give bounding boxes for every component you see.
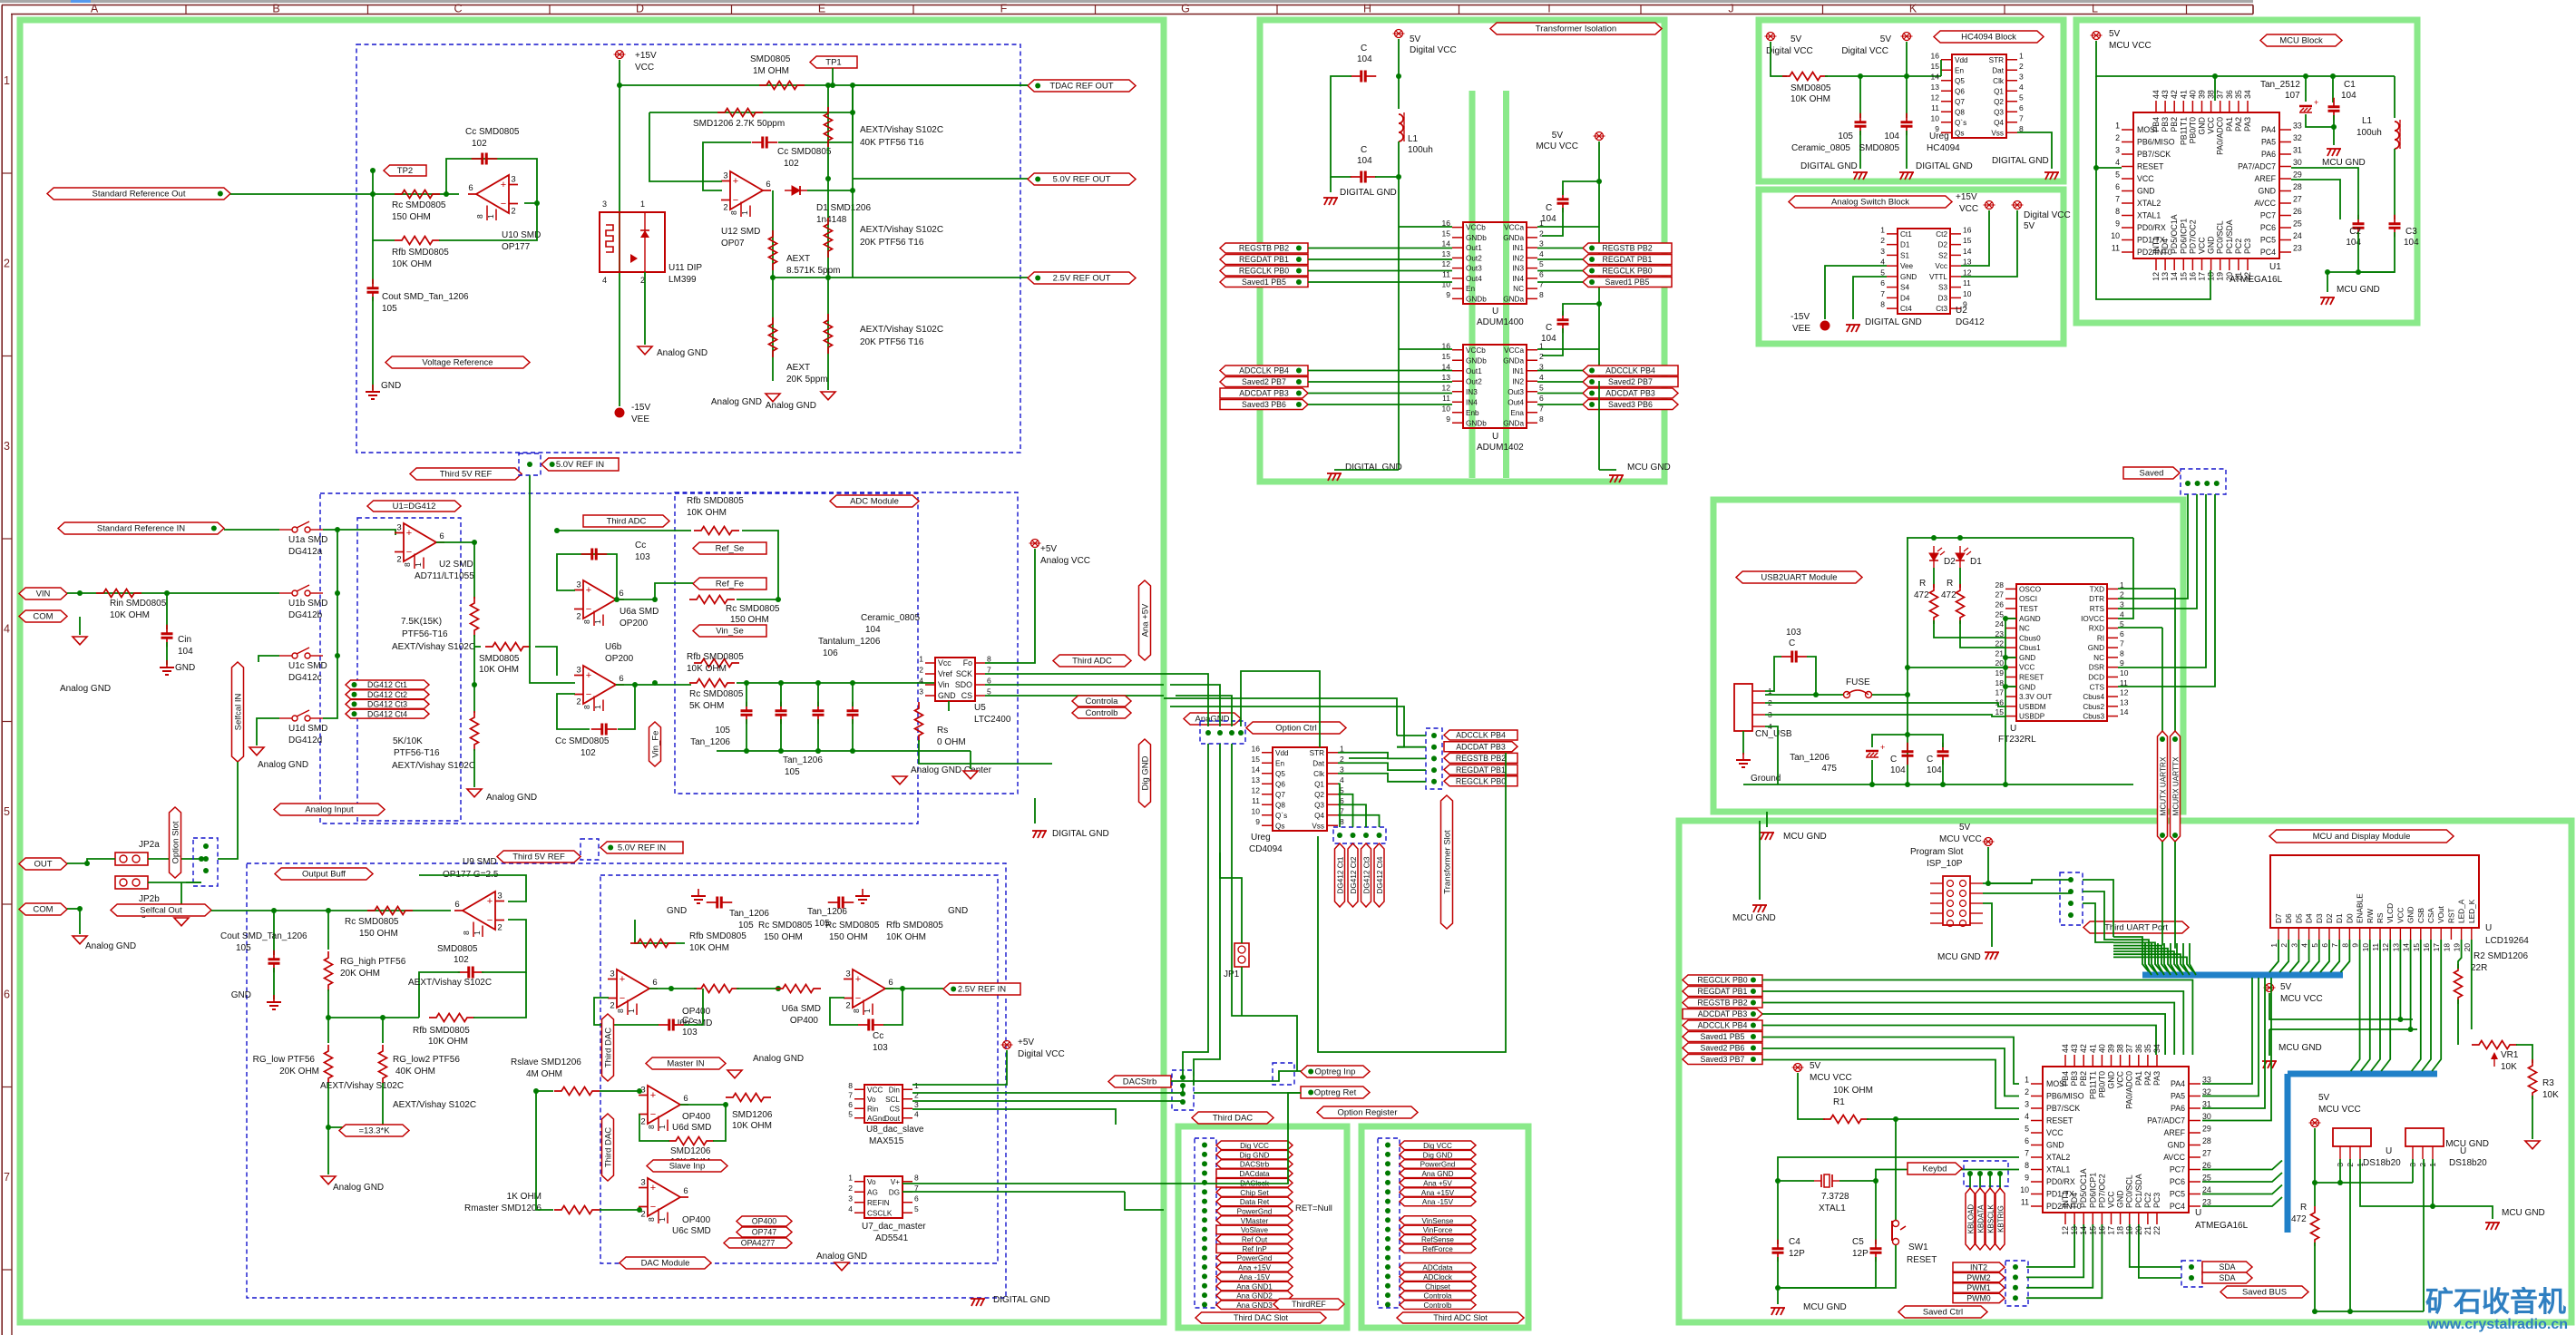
svg-text:5: 5 [914, 1204, 919, 1213]
svg-text:+15V: +15V [1956, 192, 1977, 202]
svg-text:PA4: PA4 [2261, 125, 2276, 134]
svg-text:PA6: PA6 [2171, 1104, 2185, 1113]
svg-text:Cbus4: Cbus4 [2083, 693, 2104, 701]
svg-text:DIGITAL GND: DIGITAL GND [993, 1295, 1050, 1305]
svg-text:Ref InP: Ref InP [1242, 1245, 1267, 1253]
svg-text:6: 6 [2120, 629, 2124, 638]
svg-text:5V: 5V [2280, 982, 2292, 992]
svg-text:25: 25 [1995, 609, 2005, 619]
svg-text:REGDAT PB1: REGDAT PB1 [1698, 987, 1748, 996]
svg-text:Clk: Clk [1993, 77, 2005, 85]
svg-text:Saved Ctrl: Saved Ctrl [1923, 1308, 1963, 1318]
svg-text:D: D [636, 3, 644, 15]
svg-text:Clk: Clk [1313, 770, 1325, 778]
svg-text:Selfcal IN: Selfcal IN [233, 694, 243, 731]
svg-text:Option Ctrl: Option Ctrl [1275, 724, 1316, 734]
svg-text:RESET: RESET [2046, 1116, 2073, 1125]
svg-text:20K OHM: 20K OHM [279, 1067, 319, 1077]
svg-text:Out1: Out1 [1466, 367, 1482, 375]
svg-text:17: 17 [2432, 943, 2441, 952]
svg-text:VCCa: VCCa [1504, 346, 1524, 355]
svg-text:MCU VCC: MCU VCC [1939, 834, 1982, 844]
svg-text:PTF56-T16: PTF56-T16 [394, 748, 440, 758]
svg-text:Data Ret: Data Ret [1240, 1198, 1270, 1206]
svg-text:Third 5V REF: Third 5V REF [440, 470, 493, 480]
svg-text:=13.3*K: =13.3*K [358, 1126, 390, 1136]
svg-text:+: + [650, 1090, 656, 1101]
svg-text:Q3: Q3 [1994, 108, 2004, 116]
svg-text:Q5: Q5 [1955, 77, 1965, 85]
svg-text:−: − [586, 604, 591, 615]
svg-text:13: 13 [1442, 373, 1451, 382]
svg-text:ISP_10P: ISP_10P [1927, 859, 1963, 869]
svg-text:GND: GND [2046, 1141, 2064, 1150]
svg-text:Dat: Dat [1992, 66, 2004, 74]
svg-text:13: 13 [1442, 249, 1451, 258]
svg-text:Ref_Fe: Ref_Fe [716, 580, 744, 590]
svg-text:JP2b: JP2b [139, 894, 160, 904]
svg-text:Rc SMD0805: Rc SMD0805 [726, 604, 780, 614]
svg-text:R2 SMD1206: R2 SMD1206 [2474, 951, 2528, 961]
svg-text:SW1: SW1 [1908, 1242, 1928, 1252]
svg-text:+5V: +5V [1040, 544, 1057, 554]
svg-text:33: 33 [2202, 1076, 2211, 1085]
svg-text:PC2: PC2 [2234, 239, 2243, 254]
svg-text:5: 5 [2310, 943, 2319, 948]
svg-text:TEST: TEST [2019, 605, 2038, 613]
svg-text:ADCCLK PB4: ADCCLK PB4 [1456, 731, 1506, 740]
svg-text:SCK: SCK [956, 669, 972, 678]
svg-text:12: 12 [1931, 93, 1940, 102]
svg-text:3: 3 [2019, 72, 2024, 81]
svg-text:Master IN: Master IN [667, 1059, 704, 1069]
svg-text:U: U [2485, 923, 2492, 933]
svg-text:Third DAC: Third DAC [603, 1127, 613, 1167]
svg-text:12P: 12P [1789, 1249, 1805, 1259]
svg-text:Rfb SMD0805: Rfb SMD0805 [689, 931, 746, 941]
svg-text:AD711/LT1055: AD711/LT1055 [415, 571, 474, 581]
svg-text:6: 6 [683, 1094, 688, 1104]
svg-text:Vref: Vref [938, 669, 952, 678]
svg-text:28: 28 [2293, 182, 2302, 191]
svg-text:Standard Reference Out: Standard Reference Out [93, 190, 186, 200]
svg-text:5: 5 [4, 805, 10, 818]
svg-text:DG412 Ct2: DG412 Ct2 [367, 690, 407, 699]
svg-text:5: 5 [2115, 171, 2120, 180]
svg-text:10K OHM: 10K OHM [886, 932, 926, 942]
svg-text:25: 25 [2293, 219, 2302, 229]
svg-text:39: 39 [2107, 1044, 2116, 1053]
svg-text:DSR: DSR [2089, 664, 2104, 672]
svg-text:ADCDAT PB3: ADCDAT PB3 [1239, 389, 1289, 398]
svg-text:Vcc: Vcc [938, 658, 951, 667]
svg-text:10K OHM: 10K OHM [1791, 94, 1830, 104]
svg-text:XTAL1: XTAL1 [2137, 211, 2161, 220]
svg-text:GND: GND [231, 990, 251, 1000]
svg-text:105: 105 [738, 921, 754, 931]
svg-text:DG412: DG412 [1956, 317, 1985, 327]
svg-text:XTAL2: XTAL2 [2046, 1153, 2070, 1162]
svg-text:DIGITAL GND: DIGITAL GND [1865, 317, 1922, 327]
svg-text:Ana GND1: Ana GND1 [1236, 1282, 1273, 1291]
svg-text:DACStrb: DACStrb [1123, 1077, 1156, 1087]
svg-text:GND: GND [2406, 907, 2415, 923]
svg-text:OP400: OP400 [682, 1215, 711, 1225]
svg-text:OSCO: OSCO [2019, 585, 2041, 593]
svg-text:Q1: Q1 [1994, 87, 2004, 95]
svg-text:FUSE: FUSE [1846, 677, 1870, 687]
svg-text:DG412 Ct4: DG412 Ct4 [367, 709, 407, 718]
svg-text:8: 8 [914, 1173, 919, 1182]
svg-text:3: 3 [723, 171, 727, 181]
svg-text:DIGITAL GND: DIGITAL GND [1800, 161, 1858, 171]
svg-text:+: + [487, 896, 493, 907]
svg-text:Saved: Saved [2140, 469, 2164, 479]
svg-text:11: 11 [2112, 244, 2120, 253]
svg-text:U1a SMD: U1a SMD [288, 535, 327, 545]
svg-text:En: En [1466, 285, 1475, 293]
svg-text:Saved2 PB7: Saved2 PB7 [1242, 377, 1286, 386]
svg-text:1: 1 [848, 1173, 853, 1182]
svg-text:Rc SMD0805: Rc SMD0805 [345, 917, 399, 927]
svg-text:Saved2 PB6: Saved2 PB6 [1701, 1044, 1745, 1053]
svg-text:Digital VCC: Digital VCC [1410, 45, 1457, 55]
svg-text:U2 SMD: U2 SMD [439, 560, 473, 570]
svg-text:13: 13 [2070, 1226, 2079, 1235]
svg-text:9: 9 [2120, 658, 2124, 667]
svg-text:U10 SMD: U10 SMD [502, 230, 541, 240]
svg-text:OP200: OP200 [620, 619, 649, 629]
svg-text:6: 6 [683, 1186, 688, 1196]
svg-text:Cbus0: Cbus0 [2019, 634, 2041, 642]
svg-text:DIGITAL GND: DIGITAL GND [1345, 463, 1402, 473]
svg-text:ThirdREF: ThirdREF [1292, 1300, 1326, 1309]
svg-text:GND: GND [2019, 683, 2035, 691]
svg-text:Rc SMD0805: Rc SMD0805 [825, 921, 880, 931]
svg-text:C1: C1 [2344, 80, 2356, 90]
svg-text:8: 8 [582, 619, 591, 624]
svg-text:ATMEGA16L: ATMEGA16L [2230, 275, 2283, 285]
svg-text:+: + [586, 585, 591, 596]
svg-text:12: 12 [1442, 383, 1451, 392]
svg-text:GNDb: GNDb [1466, 356, 1487, 365]
svg-text:15: 15 [1252, 755, 1261, 764]
svg-text:S4: S4 [1900, 284, 1909, 292]
svg-text:E: E [818, 3, 825, 15]
svg-text:10: 10 [2111, 231, 2120, 240]
svg-text:8: 8 [1880, 300, 1885, 309]
svg-text:15: 15 [2088, 1226, 2097, 1235]
svg-text:Vin: Vin [938, 680, 950, 689]
svg-text:Out4: Out4 [1508, 398, 1524, 406]
svg-text:RXD: RXD [2089, 625, 2104, 633]
svg-text:107: 107 [2285, 91, 2300, 101]
svg-text:3: 3 [845, 970, 850, 979]
svg-text:PC0/SCL: PC0/SCL [2125, 1174, 2134, 1208]
svg-text:14: 14 [1931, 72, 1940, 81]
svg-text:27: 27 [1995, 590, 2005, 599]
svg-text:9: 9 [2351, 943, 2360, 948]
svg-text:Optreg Inp: Optreg Inp [1315, 1067, 1356, 1077]
svg-text:ENABLE: ENABLE [2356, 893, 2365, 923]
svg-text:CSA: CSA [2426, 907, 2435, 923]
svg-text:ADCCLK PB4: ADCCLK PB4 [1239, 366, 1289, 375]
svg-text:−: − [586, 689, 591, 700]
svg-text:L1: L1 [1408, 134, 1419, 144]
svg-text:PA7/ADC7: PA7/ADC7 [2147, 1116, 2185, 1125]
svg-text:C2: C2 [2349, 227, 2361, 237]
svg-text:PD5/OC1A: PD5/OC1A [2079, 1168, 2088, 1208]
svg-text:H: H [1363, 3, 1371, 15]
svg-text:Third ADC: Third ADC [607, 517, 647, 527]
svg-text:7: 7 [4, 1171, 10, 1184]
svg-text:U: U [2460, 1146, 2466, 1156]
svg-text:Tantalum_1206: Tantalum_1206 [818, 637, 881, 647]
svg-text:5: 5 [1539, 259, 1544, 268]
svg-text:PC5: PC5 [2260, 236, 2276, 245]
svg-text:100uh: 100uh [1408, 145, 1433, 155]
svg-text:37: 37 [2216, 90, 2225, 99]
svg-text:F: F [1000, 3, 1008, 15]
svg-text:GND: GND [2198, 117, 2207, 135]
svg-text:3: 3 [1880, 247, 1885, 256]
svg-text:J: J [1728, 3, 1733, 15]
svg-text:105: 105 [1838, 132, 1853, 141]
svg-text:VCC: VCC [2207, 116, 2216, 133]
svg-text:3: 3 [4, 440, 10, 453]
svg-text:AGND: AGND [2019, 615, 2041, 623]
svg-text:475: 475 [1821, 764, 1837, 774]
svg-text:IN4: IN4 [1466, 398, 1478, 406]
svg-text:Vss: Vss [1991, 129, 2004, 137]
svg-text:Tan_1206: Tan_1206 [1790, 753, 1830, 763]
svg-text:1: 1 [486, 214, 495, 219]
svg-text:Rfb SMD0805: Rfb SMD0805 [392, 248, 449, 258]
svg-text:10K OHM: 10K OHM [689, 943, 729, 953]
svg-text:−: − [406, 547, 412, 558]
svg-text:Saved1 PB5: Saved1 PB5 [1242, 278, 1286, 287]
svg-text:150 OHM: 150 OHM [730, 615, 769, 625]
svg-text:ATMEGA16L: ATMEGA16L [2195, 1221, 2249, 1231]
svg-text:MCU GND: MCU GND [1937, 952, 1981, 962]
svg-text:7: 7 [987, 666, 991, 675]
svg-text:PA2: PA2 [2143, 1071, 2152, 1086]
svg-text:Dat: Dat [1312, 759, 1324, 767]
svg-text:Saved BUS: Saved BUS [2242, 1288, 2287, 1298]
svg-text:38: 38 [2116, 1044, 2125, 1053]
svg-text:30: 30 [2202, 1112, 2211, 1121]
svg-text:+: + [406, 528, 412, 539]
svg-text:REGCLK PB0: REGCLK PB0 [1697, 976, 1747, 985]
svg-text:15: 15 [2179, 272, 2188, 281]
svg-text:Ct4: Ct4 [1900, 305, 1912, 313]
svg-text:GND: GND [938, 691, 956, 700]
svg-text:U: U [1492, 307, 1498, 317]
svg-text:AEXT/Vishay S102C: AEXT/Vishay S102C [320, 1081, 404, 1091]
svg-text:R: R [1947, 579, 1953, 589]
svg-text:RS: RS [2376, 912, 2385, 923]
svg-text:IN2: IN2 [1512, 254, 1524, 262]
svg-text:OP177: OP177 [502, 242, 531, 252]
svg-text:Analog GND: Analog GND [753, 1054, 804, 1064]
svg-text:9: 9 [1446, 414, 1450, 424]
svg-text:9: 9 [2025, 1174, 2029, 1183]
svg-text:Ena: Ena [1510, 409, 1524, 417]
svg-text:U1=DG412: U1=DG412 [393, 502, 436, 512]
svg-text:Rfb SMD0805: Rfb SMD0805 [886, 921, 943, 931]
svg-text:U11 DIP: U11 DIP [668, 263, 702, 273]
svg-text:SCL: SCL [885, 1096, 900, 1104]
svg-text:3: 3 [396, 523, 401, 533]
svg-text:8: 8 [2115, 207, 2120, 216]
svg-text:−: − [501, 199, 506, 210]
svg-text:R3: R3 [2542, 1078, 2554, 1088]
svg-text:OUT: OUT [34, 860, 52, 870]
svg-text:14: 14 [1442, 239, 1451, 248]
svg-text:4: 4 [2300, 943, 2309, 948]
svg-text:4M OHM: 4M OHM [526, 1069, 562, 1079]
svg-text:24: 24 [2202, 1185, 2211, 1194]
svg-text:IN1: IN1 [1512, 367, 1524, 375]
svg-text:DG412 Ct3: DG412 Ct3 [367, 700, 407, 709]
svg-text:ADCdata: ADCdata [1422, 1264, 1453, 1272]
svg-text:7: 7 [2025, 1149, 2029, 1158]
svg-text:1: 1 [740, 210, 749, 215]
svg-text:6: 6 [766, 180, 770, 190]
svg-text:103: 103 [873, 1043, 888, 1053]
svg-text:GND: GND [2167, 1141, 2185, 1150]
svg-text:4: 4 [2025, 1112, 2029, 1121]
svg-text:5V: 5V [2024, 221, 2035, 231]
svg-text:SMD0805: SMD0805 [437, 944, 478, 954]
svg-text:19: 19 [2125, 1226, 2134, 1235]
svg-text:PB0/T0: PB0/T0 [2188, 117, 2197, 143]
svg-text:REFIN: REFIN [867, 1199, 890, 1207]
svg-text:20: 20 [1995, 658, 2005, 667]
svg-text:REGSTB PB2: REGSTB PB2 [1602, 244, 1652, 253]
svg-text:KBSCLK: KBSCLK [1986, 1204, 1995, 1233]
svg-text:RefSense: RefSense [1421, 1236, 1454, 1244]
svg-text:VEE: VEE [631, 414, 649, 424]
svg-text:7.3728: 7.3728 [1821, 1192, 1849, 1202]
svg-text:10K OHM: 10K OHM [687, 664, 727, 674]
svg-text:5.0V REF IN: 5.0V REF IN [618, 843, 666, 853]
svg-text:Ana -15V: Ana -15V [1239, 1273, 1271, 1281]
svg-text:Ureg: Ureg [1251, 833, 1271, 843]
svg-text:Cout SMD_Tan_1206: Cout SMD_Tan_1206 [382, 292, 469, 302]
svg-text:106: 106 [823, 648, 838, 658]
svg-text:Analog GND: Analog GND [657, 348, 707, 358]
svg-text:Vdd: Vdd [1275, 749, 1289, 757]
svg-text:13: 13 [1252, 775, 1261, 784]
svg-text:TDAC REF OUT: TDAC REF OUT [1049, 82, 1113, 92]
svg-text:3: 3 [1340, 765, 1344, 774]
svg-text:Option Slot: Option Slot [171, 821, 181, 863]
svg-text:STR: STR [1310, 749, 1324, 757]
svg-text:Vin_Fe: Vin_Fe [650, 731, 660, 758]
svg-text:Third DAC: Third DAC [1213, 1114, 1253, 1124]
svg-text:5.0V REF IN: 5.0V REF IN [556, 460, 604, 470]
svg-text:10K OHM: 10K OHM [110, 610, 150, 620]
svg-text:AEXT/Vishay S102C: AEXT/Vishay S102C [408, 978, 492, 988]
svg-text:+: + [1880, 743, 1885, 752]
svg-text:VCC: VCC [2019, 664, 2034, 672]
svg-text:Rin SMD0805: Rin SMD0805 [110, 599, 167, 609]
svg-text:SMD0805: SMD0805 [1791, 83, 1831, 93]
svg-text:26: 26 [2202, 1161, 2211, 1170]
svg-text:GND: GND [175, 663, 195, 673]
svg-text:14: 14 [2170, 272, 2179, 281]
svg-text:VCC: VCC [2395, 907, 2405, 923]
svg-text:R: R [1919, 579, 1926, 589]
svg-text:D3: D3 [2315, 913, 2324, 923]
svg-text:105: 105 [785, 767, 800, 777]
svg-text:15: 15 [1442, 352, 1451, 361]
svg-text:MCU GND: MCU GND [2502, 1208, 2545, 1218]
svg-text:21: 21 [1995, 648, 2005, 658]
svg-text:PB2: PB2 [2170, 117, 2179, 132]
svg-text:RESET: RESET [2137, 162, 2164, 171]
svg-text:INT1: INT1 [2152, 237, 2161, 254]
svg-text:104: 104 [865, 625, 881, 635]
svg-text:1: 1 [2025, 1076, 2029, 1085]
svg-text:2: 2 [2418, 1163, 2427, 1167]
svg-text:12: 12 [1963, 268, 1972, 277]
svg-text:5V: 5V [1410, 34, 1421, 44]
svg-text:USBDP: USBDP [2019, 713, 2045, 721]
svg-text:4: 4 [2019, 83, 2024, 92]
svg-text:Q2: Q2 [1994, 98, 2004, 106]
svg-text:Dig VCC: Dig VCC [1240, 1142, 1269, 1150]
svg-text:GND: GND [2207, 236, 2216, 254]
svg-text:Tan_1206: Tan_1206 [690, 737, 730, 747]
svg-text:CTS: CTS [2090, 683, 2105, 691]
svg-text:GND: GND [381, 381, 401, 391]
svg-text:Third ADC: Third ADC [1072, 657, 1112, 667]
svg-text:1M OHM: 1M OHM [753, 66, 789, 76]
svg-text:Third DAC Slot: Third DAC Slot [1234, 1313, 1289, 1322]
svg-text:1: 1 [473, 931, 482, 935]
svg-text:105: 105 [236, 943, 251, 953]
svg-text:D7: D7 [2274, 913, 2283, 923]
svg-text:REGCLK PB0: REGCLK PB0 [1239, 267, 1289, 276]
svg-text:23: 23 [2202, 1198, 2211, 1207]
svg-text:DG412a: DG412a [288, 547, 323, 557]
svg-text:4: 4 [4, 623, 10, 636]
svg-text:ADUM1402: ADUM1402 [1477, 443, 1524, 453]
svg-text:AEXT/Vishay S102C: AEXT/Vishay S102C [393, 1100, 476, 1110]
svg-text:GND: GND [2258, 187, 2276, 196]
svg-text:Q5: Q5 [1275, 770, 1285, 778]
svg-text:SDA: SDA [2219, 1262, 2235, 1272]
svg-text:SMD0805: SMD0805 [479, 654, 520, 664]
svg-text:VCC: VCC [2046, 1128, 2064, 1137]
svg-text:2: 2 [1539, 229, 1544, 238]
svg-text:IN3: IN3 [1512, 265, 1524, 273]
svg-text:16: 16 [2097, 1226, 2106, 1235]
svg-text:8: 8 [848, 1081, 853, 1090]
svg-text:PC6: PC6 [2170, 1177, 2185, 1186]
svg-text:DS18b20: DS18b20 [2363, 1158, 2401, 1168]
svg-text:Program Slot: Program Slot [1910, 847, 1964, 857]
svg-text:36: 36 [2134, 1044, 2143, 1053]
svg-text:VLCD: VLCD [2386, 903, 2395, 923]
svg-text:20: 20 [2463, 943, 2472, 952]
svg-text:Out3: Out3 [1466, 265, 1482, 273]
svg-text:4: 4 [2120, 609, 2124, 619]
svg-text:13: 13 [1931, 83, 1940, 92]
svg-text:Rs: Rs [937, 726, 948, 736]
